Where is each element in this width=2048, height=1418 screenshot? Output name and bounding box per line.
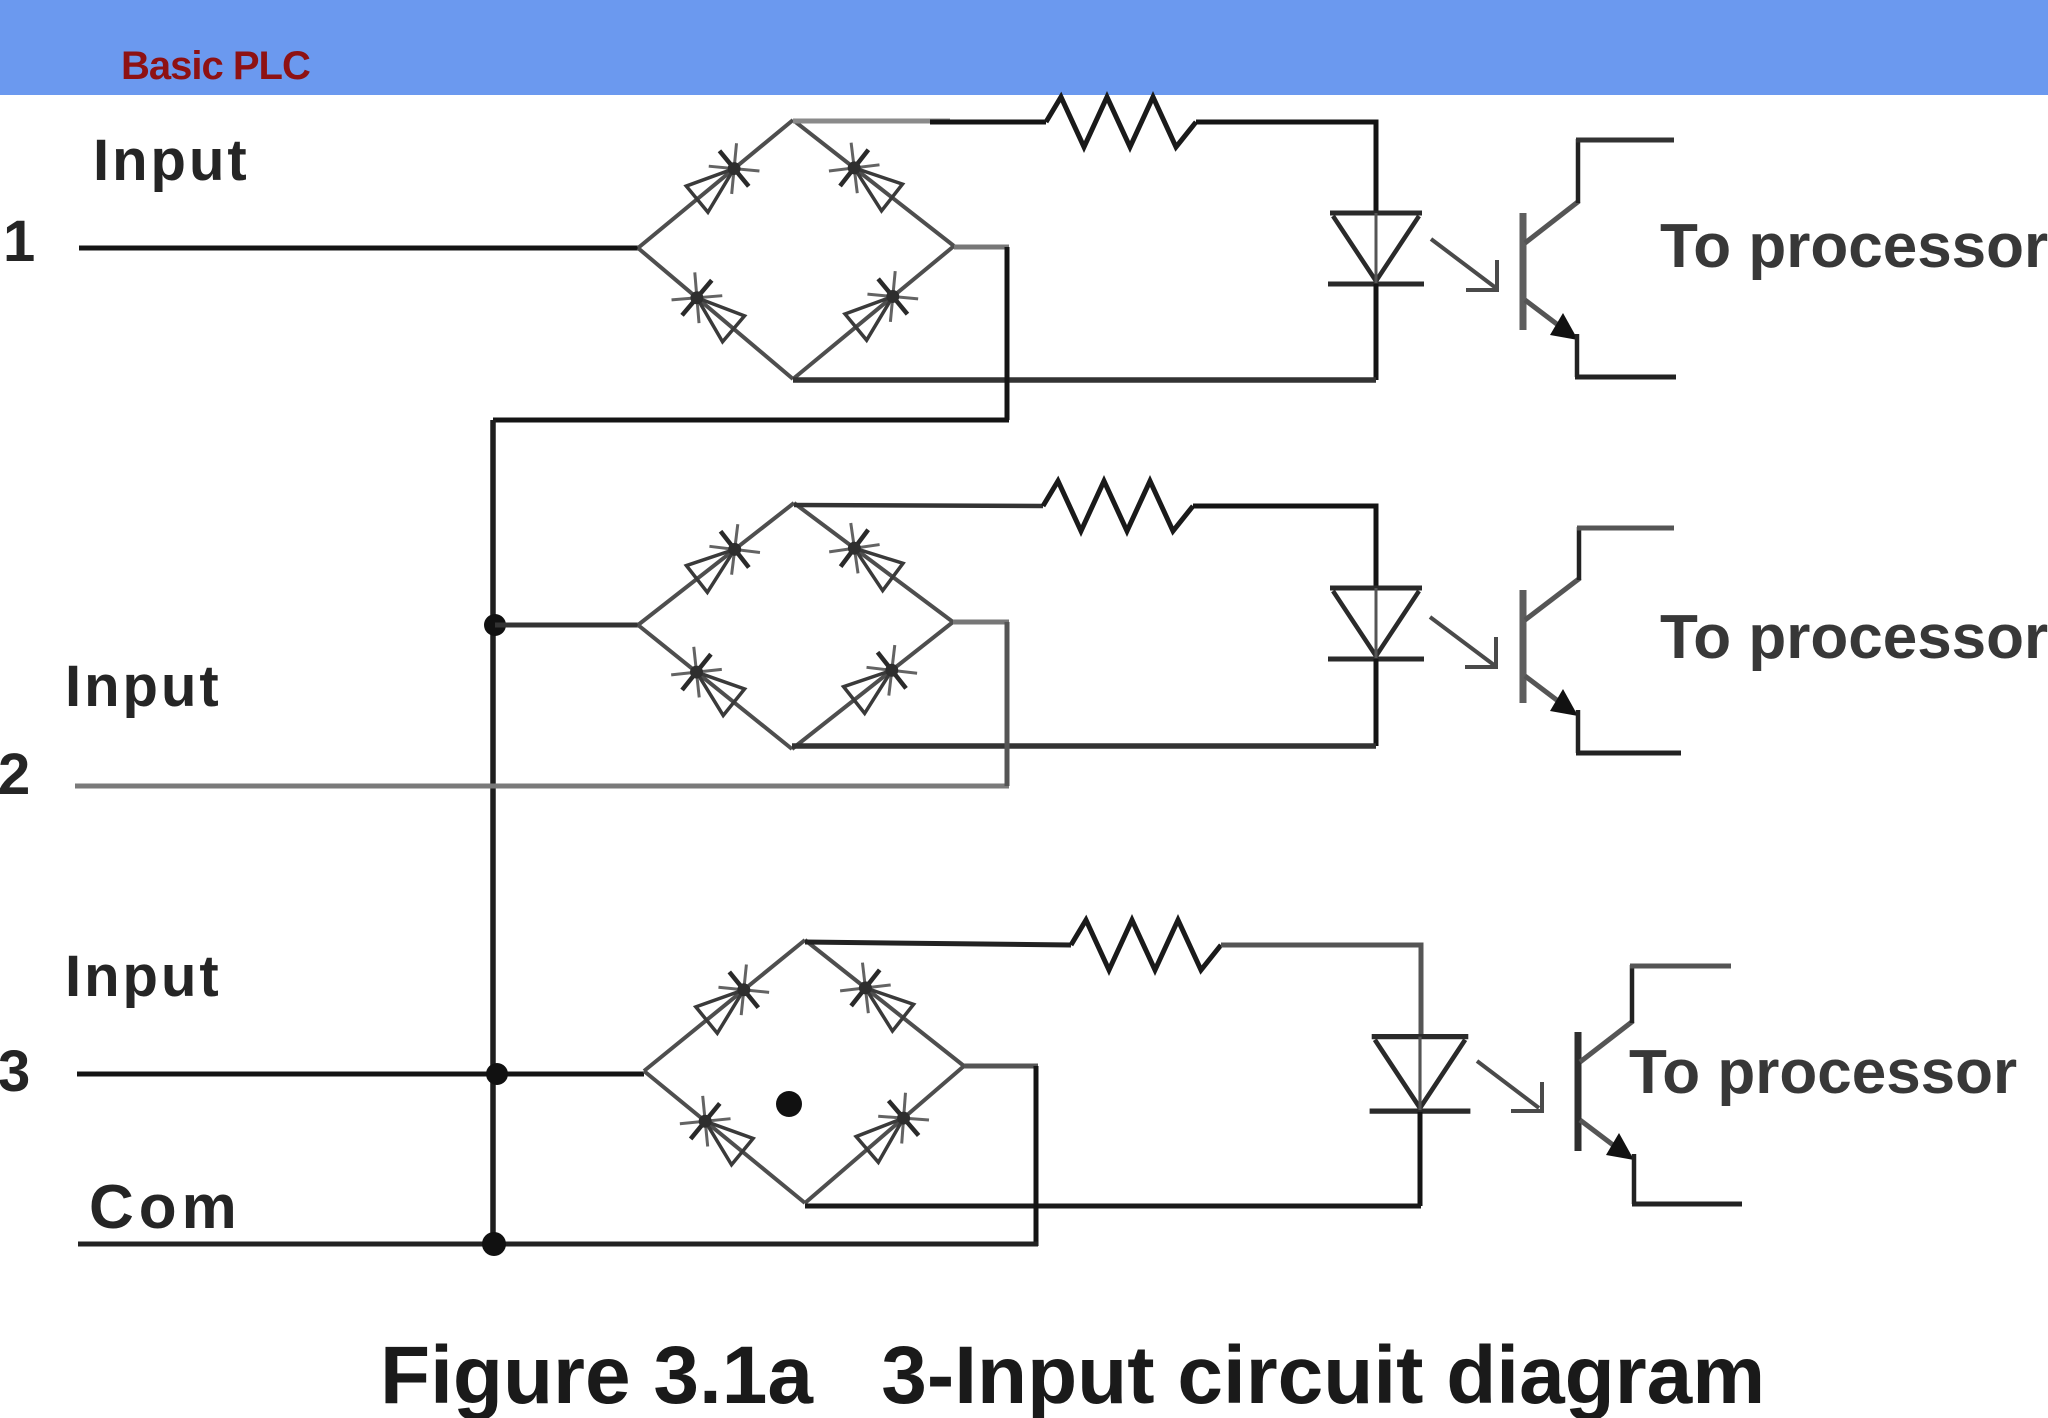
phototransistor Q3	[1578, 965, 1742, 1204]
svg-text:To processor: To processor	[1629, 1038, 2017, 1107]
svg-text:2: 2	[0, 742, 30, 807]
junction dot inside bridge 3	[776, 1091, 802, 1117]
wire bridge 3 right down to Com	[1034, 1066, 1039, 1246]
junction node (input 3 tap)	[486, 1063, 508, 1085]
wire bridge 1 right down	[1005, 247, 1010, 420]
diode D6 (bridge 2 upper-left)	[638, 503, 794, 625]
diode D8 (bridge 2 lower-left)	[638, 625, 792, 749]
wire Com	[78, 1242, 1038, 1247]
wire bridge 2 right corner stub	[953, 620, 1009, 625]
svg-text:Basic PLC: Basic PLC	[121, 44, 310, 88]
resistor R2	[1043, 481, 1193, 531]
svg-text:Input: Input	[93, 128, 250, 193]
light arrow 1	[1431, 239, 1499, 291]
diode D4 (bridge 1 lower-right)	[793, 246, 954, 379]
resistor R1	[1046, 97, 1196, 147]
diode D3 (bridge 1 lower-left)	[638, 248, 793, 379]
wire to common bus	[493, 418, 1009, 423]
diode D14 (bridge 3 lower-right)	[805, 1066, 964, 1203]
phototransistor Q1	[1523, 139, 1676, 377]
wire LED1 return to bridge 1 bottom	[793, 377, 1376, 383]
diode D7 (bridge 2 upper-right)	[794, 503, 953, 622]
svg-text:Input: Input	[65, 944, 222, 1009]
diode D11 (bridge 3 upper-left)	[644, 940, 805, 1071]
diode D9 (bridge 2 lower-right)	[792, 622, 953, 749]
junction node (Com tap)	[482, 1232, 506, 1256]
LED D10 (optocoupler 2 LED)	[1328, 588, 1424, 659]
wire common to bridge 2	[495, 623, 638, 628]
phototransistor Q2	[1523, 527, 1681, 753]
common bus vertical wire	[490, 420, 496, 1250]
resistor R3	[1071, 920, 1221, 970]
wire bridge 2 right down to input 2	[1005, 622, 1010, 786]
diode D12 (bridge 3 upper-right)	[805, 940, 964, 1066]
wire R1 to LED1	[1196, 122, 1376, 215]
wire input 2	[75, 784, 1009, 789]
wire input 3	[77, 1072, 644, 1077]
diode D1 (bridge 1 upper-left)	[638, 120, 793, 248]
diode D13 (bridge 3 lower-left)	[644, 1071, 805, 1203]
LED D5 (optocoupler 1 LED)	[1328, 213, 1424, 284]
wire R3 to LED3	[1221, 945, 1421, 1039]
light arrow 3	[1477, 1061, 1544, 1112]
svg-text:To processor: To processor	[1660, 212, 2048, 281]
svg-text:1: 1	[3, 209, 35, 274]
wire input 1	[79, 246, 638, 251]
light arrow 2	[1430, 617, 1498, 668]
svg-text:Figure 3.1a 3-Input circuit: Figure 3.1a 3-Input circuit diagram	[380, 1330, 1765, 1418]
wire bridge 2 top to resistor R2	[794, 505, 1043, 506]
diode D2 (bridge 1 upper-right)	[793, 120, 954, 246]
junction node (common to bridge 2)	[484, 614, 506, 636]
svg-text:To processor: To processor	[1660, 603, 2048, 672]
wire bridge 3 top to resistor R3	[805, 942, 1071, 945]
wire bridge 3 right corner stub	[964, 1064, 1038, 1069]
wire LED2 cathode down	[1374, 659, 1379, 746]
wire LED3 return to bridge 3 bottom	[805, 1204, 1421, 1209]
svg-text:Com: Com	[89, 1173, 242, 1242]
wire LED3 cathode down	[1418, 1112, 1423, 1206]
svg-text:Input: Input	[65, 654, 222, 719]
header bar	[0, 0, 2048, 95]
wire R2 to LED2	[1193, 506, 1376, 590]
wire LED2 return to bridge 2 bottom	[792, 743, 1376, 749]
wire bridge 1 right corner stub	[954, 245, 1009, 250]
wire bridge 1 top to resistor R1	[793, 121, 1046, 122]
svg-text:3: 3	[0, 1039, 30, 1104]
wire LED1 cathode down	[1374, 284, 1379, 380]
LED D15 (optocoupler 3 LED)	[1370, 1037, 1471, 1112]
